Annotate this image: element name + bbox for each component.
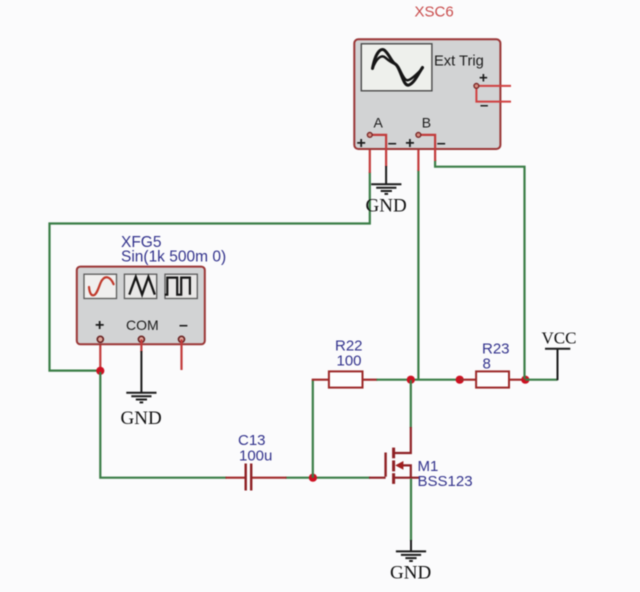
svg-text:A: A [374,115,384,131]
wire: XFG5 + pin red stub [99,340,101,372]
resistor R22 body [329,371,363,387]
drain tap [395,427,411,453]
svg-text:+: + [357,135,366,152]
pin: FG - terminal [179,336,185,342]
svg-text:BSS123: BSS123 [418,473,473,490]
XFG5 sine glyph [89,277,114,295]
wire: scope B+ green drop [417,170,419,379]
XFG5 square glyph [165,278,190,295]
wire: COM red stub [140,340,142,353]
channel bar bottom [392,473,395,484]
svg-text:100u: 100u [239,448,272,465]
svg-text:VCC: VCC [542,329,577,348]
wire: scope B- route (down, right, down to R23 right node) [435,160,524,379]
wire: R22 right red stub [363,379,378,381]
svg-text:8: 8 [483,356,491,373]
source tap [395,477,419,479]
wire: FG - open red stub [180,340,182,371]
bulk line to source [402,465,411,477]
XFG5 button triangle [124,274,156,298]
wire: black ground lead (scope A-) [385,166,387,184]
wire: net A+ green run (scope A+ down, left, down, to FG+ junction) [50,172,370,371]
pin: scope A+ terminal dot [367,133,372,138]
oscilloscope screen [361,44,432,91]
wire: black ground lead (bottom) [410,540,412,551]
svg-text:GND: GND [390,563,431,584]
wire: green from R23 node to VCC lead [525,379,557,381]
oscilloscope screen sine icon (inner curve) [373,56,423,80]
resistor R23 body [476,371,509,387]
svg-text:Sin(1k 500m 0): Sin(1k 500m 0) [121,248,226,265]
pin: scope B+ terminal dot [416,133,421,138]
ground symbol (scope) [371,184,401,194]
svg-text:–: – [437,135,446,152]
svg-text:GND: GND [121,408,162,429]
wire: COM black ground lead [140,351,142,393]
pin: FG + terminal [97,336,103,342]
svg-text:COM: COM [126,317,159,333]
svg-text:+: + [405,135,414,152]
XFG5 button square [165,274,197,298]
wire: scope B+ red stub [417,135,419,171]
wire: scope A+ red stub [369,135,371,173]
wire: vertical green from R22 left corner down to gate node [312,380,314,478]
wire: R23 left red stub [460,379,477,381]
svg-text:GND: GND [366,196,407,217]
svg-text:+: + [479,70,488,87]
wire: scope B- red stub [434,135,436,161]
capacitor C13 plates [246,464,252,491]
svg-text:–: – [480,97,488,114]
wire: channel A staple (pin to A-) [370,135,386,167]
gate bar [384,453,386,477]
wire: gate red stub [369,477,386,479]
svg-text:B: B [422,115,431,131]
ground symbol (bottom, under M1 source) [396,551,426,561]
function generator XFG5 body [77,267,205,345]
svg-text:+: + [95,317,104,334]
ground symbol (XFG5) [126,393,156,403]
XFG5 button sine (selected) [84,274,117,298]
wire: ext trig + stub [476,86,511,102]
wire: gate net green (junction down, right to cap, after cap to gate) [100,372,370,478]
svg-text:Ext Trig: Ext Trig [434,53,484,69]
node: junction dot left of R23 [456,376,464,384]
power VCC symbol [545,349,570,380]
svg-text:100: 100 [337,352,362,369]
node: junction dot right of R23 [521,376,529,384]
channel bar middle [392,460,395,471]
oscilloscope XSC6 body [354,39,500,149]
wire: capacitor C13 left red stub [226,477,245,479]
svg-text:C13: C13 [238,432,266,449]
wire: green between R22 and R23 [377,379,461,381]
transistor M1 BSS123 (NMOS) [386,427,419,484]
wire: capacitor C13 right red stub [252,477,286,479]
transistor M1 bulk arrow [395,461,403,470]
svg-text:–: – [179,317,188,334]
svg-text:–: – [388,135,397,152]
wire: drain green drop from junction [410,380,412,428]
wire: R22 left red stub [313,380,330,381]
svg-text:XSC6: XSC6 [415,4,454,21]
pin: FG COM terminal [138,336,144,342]
wire: R23 right red stub [509,379,526,381]
wire: source green drop to ground [410,479,412,541]
XFG5 triangle glyph [129,277,155,295]
wire: channel B staple (pin to B-) [418,135,435,150]
node: junction dot cap/gate/R22-branch [309,474,317,482]
node: junction dot drain branch [407,376,415,384]
pin: ext trig terminal dot [474,84,479,89]
oscilloscope screen sine icon (outer curve) [373,50,423,86]
channel bar top [392,448,395,459]
node: junction dot at FG+ / wire corner [96,367,104,375]
